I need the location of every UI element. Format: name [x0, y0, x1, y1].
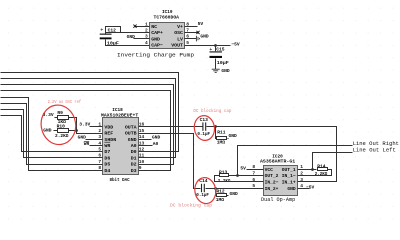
svg-text:5: 5 — [186, 40, 189, 46]
svg-text:GND: GND — [43, 128, 52, 134]
svg-text:V+: V+ — [177, 24, 183, 30]
svg-text:10: 10 — [139, 159, 145, 165]
svg-text:GND: GND — [200, 33, 209, 39]
svg-text:VOUT: VOUT — [171, 43, 183, 49]
wire data bus D1 to DAC pin 11 — [1, 79, 176, 158]
svg-text:1: 1 — [98, 122, 101, 128]
svg-text:NC: NC — [151, 24, 157, 30]
red annotation ellipse around C13 — [193, 114, 217, 142]
wire data bus D5 to DAC pin 7 — [1, 104, 98, 165]
svg-text:8: 8 — [98, 165, 101, 171]
svg-text:GND: GND — [128, 137, 137, 143]
wire IC20 pin 4 GND to -5V — [306, 188, 310, 190]
svg-text:+: + — [209, 47, 212, 53]
svg-text:2: 2 — [145, 28, 148, 34]
svg-text:D1: D1 — [131, 155, 137, 161]
capacitor C14 plates — [202, 184, 205, 192]
junction C13 / R11 — [214, 125, 217, 128]
svg-text:4: 4 — [300, 183, 303, 189]
IC19 right pin names — [171, 24, 183, 49]
capacitor C12 plates — [100, 34, 112, 39]
svg-text:MAX5102BEUE+T: MAX5102BEUE+T — [101, 113, 138, 119]
svg-text:IC19: IC19 — [162, 10, 173, 15]
resistor R11 — [217, 137, 227, 140]
svg-text:DC blocking cap: DC blocking cap — [193, 108, 231, 114]
svg-text:8: 8 — [252, 164, 255, 170]
svg-text:IN_1+: IN_1+ — [282, 180, 296, 186]
svg-text:2.2KΩ: 2.2KΩ — [55, 133, 69, 139]
svg-text:CAP+: CAP+ — [151, 30, 163, 36]
wire R13 left to IC20 pin 6 IN_2- feedback — [215, 176, 251, 182]
wire OUT_2 junction to IC20 pin 7 — [238, 175, 251, 177]
svg-text:R9: R9 — [57, 110, 63, 116]
IC18 left pin numbers 1-8 — [98, 122, 101, 171]
svg-text:A0: A0 — [131, 143, 137, 149]
IC20 right pin numbers 1,2,3,4 — [300, 164, 303, 189]
red annotation ellipse around C14 — [193, 176, 218, 205]
svg-text:VCC: VCC — [265, 167, 274, 173]
IC20 right pin names — [282, 167, 296, 192]
svg-text:R13: R13 — [219, 169, 228, 175]
svg-text:D5: D5 — [104, 162, 110, 168]
svg-text:3.3V: 3.3V — [79, 122, 90, 128]
svg-text:OUTA: OUTA — [125, 124, 137, 130]
IC20 left pin numbers 8,7,6,5 — [252, 164, 255, 189]
svg-text:A0: A0 — [153, 141, 159, 147]
svg-text:5V: 5V — [198, 21, 204, 27]
IC18 left pin names — [104, 124, 116, 173]
svg-text:GND: GND — [230, 191, 239, 197]
wire VOUT junction down to C15 — [215, 46, 217, 52]
resistor R14 — [318, 168, 328, 171]
svg-text:IC18: IC18 — [112, 108, 123, 113]
wire IC19 pin 5 VOUT to -5V — [191, 45, 231, 47]
svg-text:GND: GND — [287, 186, 296, 192]
wire data bus D0 to DAC pin 12 — [1, 73, 179, 152]
svg-text:IN_2−: IN_2− — [265, 180, 279, 186]
wire 3.3V to IC18 pin 1 — [90, 126, 98, 128]
resistor R10 — [58, 129, 69, 133]
junction OUT_2 / R13 / line out right — [236, 174, 239, 177]
svg-text:3: 3 — [145, 34, 148, 40]
svg-text:GND: GND — [152, 135, 161, 141]
wire IC19 pin 7 OSC stub — [191, 32, 199, 34]
svg-text:D7: D7 — [104, 149, 110, 155]
resistor R13 — [220, 174, 229, 177]
wire GND label to IC19 pin 3 — [134, 38, 144, 40]
svg-text:2: 2 — [300, 171, 303, 177]
svg-text:AS358AMTR-G1: AS358AMTR-G1 — [260, 159, 295, 165]
svg-text:3: 3 — [98, 134, 101, 140]
svg-text:GND: GND — [127, 34, 136, 40]
svg-text:CAP−: CAP− — [151, 43, 163, 49]
svg-text:5: 5 — [252, 183, 255, 189]
svg-text:OUT_2: OUT_2 — [265, 173, 279, 179]
resistor R12 — [217, 194, 227, 197]
ground symbol below C15 — [212, 69, 220, 72]
IC19 pin stubs — [144, 27, 191, 46]
svg-text:3: 3 — [300, 177, 303, 183]
wire R13 right to junction — [229, 175, 238, 177]
svg-text:R11: R11 — [217, 129, 226, 135]
svg-text:9: 9 — [139, 165, 142, 171]
svg-text:2.2KΩ: 2.2KΩ — [218, 178, 231, 184]
svg-text:7: 7 — [252, 171, 255, 177]
svg-text:Inverting Charge Pump: Inverting Charge Pump — [117, 52, 194, 58]
wire data bus D3 to DAC pin 9 — [1, 91, 171, 171]
wire OUT_1 up to Line Out Left — [313, 153, 353, 170]
svg-text:Dual Op-Amp: Dual Op-Amp — [261, 197, 295, 203]
svg-text:1: 1 — [300, 164, 303, 170]
wire R10 right to divider node — [69, 130, 77, 132]
IC19 right pin numbers 8,7,6,5 — [186, 21, 189, 46]
wire data bus D2 to DAC pin 10 — [1, 85, 174, 165]
capacitor C15 plates — [210, 52, 223, 58]
svg-text:0.1µF: 0.1µF — [196, 192, 209, 198]
svg-text:DC blocking cap: DC blocking cap — [170, 202, 212, 208]
svg-text:GND: GND — [151, 36, 160, 42]
svg-text:−5V: −5V — [306, 185, 315, 191]
svg-text:WR: WR — [104, 143, 110, 149]
svg-text:D2: D2 — [131, 162, 137, 168]
wire R14 right to IC20 pin 2 IN_1- feedback — [310, 170, 332, 176]
svg-text:0.1µF: 0.1µF — [197, 131, 210, 137]
svg-text:OUTB: OUTB — [125, 131, 137, 137]
svg-text:GND: GND — [229, 133, 238, 139]
wire R11 to GND label — [228, 138, 229, 140]
wire C12 top plate to IC19 pin 2 CAP+ — [106, 27, 144, 35]
svg-text:VDD: VDD — [104, 124, 113, 130]
svg-text:5V: 5V — [240, 166, 246, 172]
wire IC19 pin 6 LV to ground — [191, 38, 197, 40]
no-connect X at IC19 pin 1 — [133, 25, 136, 28]
svg-text:7: 7 — [186, 28, 189, 34]
red annotation ellipse around R9/R10 — [38, 103, 78, 147]
junction divider node R9/R10 — [75, 129, 78, 132]
IC19 left pin numbers 1-4 — [145, 21, 148, 46]
svg-text:4: 4 — [145, 40, 148, 46]
wire IC18 pin 15 OUTB down to C14 — [144, 134, 201, 189]
svg-text:6: 6 — [186, 34, 189, 40]
svg-text:8: 8 — [186, 21, 189, 27]
DAC IC18 body — [103, 118, 139, 175]
wire C12 bottom plate to IC19 pin 4 CAP- — [106, 40, 144, 46]
svg-text:LV: LV — [177, 36, 183, 42]
svg-text:11: 11 — [139, 153, 145, 159]
wire C15 bottom to ground — [215, 59, 217, 70]
svg-text:D6: D6 — [104, 155, 110, 161]
svg-text:R10: R10 — [57, 124, 66, 130]
wire GND to IC18 pin 3 — [86, 139, 98, 141]
wire data bus D7 to DAC pin 5 — [1, 116, 98, 152]
svg-text:6: 6 — [98, 153, 101, 159]
wire data bus D6 to DAC pin 6 — [1, 110, 98, 158]
op-amp/charge-pump IC19 body — [150, 23, 185, 49]
wire segment closing C12 label box — [106, 32, 121, 34]
wire C14 to IC20 pin 5 IN_2+ — [206, 188, 251, 190]
svg-text:5: 5 — [98, 147, 101, 153]
IC19 left pin names — [151, 24, 163, 49]
IC20 left pin names — [265, 167, 279, 192]
overline on IC18 WR pin name — [104, 141, 110, 143]
svg-text:IN_2+: IN_2+ — [265, 186, 279, 192]
svg-text:TC7660DOA: TC7660DOA — [154, 15, 180, 21]
wire 5V to IC20 pin 8 VCC — [247, 169, 251, 171]
wire IC19 pin 8 to 5V — [191, 26, 198, 28]
IC20 pin stubs — [251, 170, 310, 189]
wire R9 right to divider node and IC18 pin 2 REF — [69, 118, 98, 134]
wire IC18 pin 14 to GND label — [144, 139, 152, 141]
svg-text:GND: GND — [78, 134, 87, 140]
overline on WR net label — [84, 141, 89, 143]
wire R12 to GND label — [227, 195, 229, 197]
IC18 pin stubs — [98, 127, 144, 171]
wire junction down to R11 — [216, 127, 217, 139]
svg-text:1: 1 — [145, 21, 148, 27]
svg-text:2.2V as DAC ref: 2.2V as DAC ref — [48, 100, 82, 105]
svg-text:C15: C15 — [216, 47, 225, 53]
wire C13 to IC20 pin 3 IN_1+ — [207, 127, 337, 182]
svg-text:D3: D3 — [131, 168, 137, 174]
wire OUT_2 up to Line Out Right — [238, 146, 353, 176]
svg-text:−5V: −5V — [231, 42, 240, 48]
svg-text:D4: D4 — [104, 168, 110, 174]
junction OUT_1 / R14 / line out left — [311, 168, 314, 171]
wire IC18 pin 16 OUTA to C13 — [144, 126, 203, 128]
svg-text:Line Out Left: Line Out Left — [353, 147, 396, 153]
svg-text:D0: D0 — [131, 149, 137, 155]
svg-text:1MΩ: 1MΩ — [216, 197, 225, 203]
junction VOUT / C15 — [214, 44, 217, 47]
capacitor C13 plates — [203, 122, 206, 130]
svg-text:IN_1−: IN_1− — [282, 173, 296, 179]
svg-text:R12: R12 — [216, 188, 225, 194]
svg-text:C13: C13 — [200, 117, 209, 123]
svg-text:8bit DAC: 8bit DAC — [110, 177, 130, 183]
wire 3.3V to R9 — [55, 117, 58, 119]
svg-text:+: + — [100, 28, 103, 34]
svg-text:6: 6 — [252, 177, 255, 183]
no-connect X at IC19 pin 7 — [196, 31, 199, 34]
wire junction down to R12 — [216, 189, 217, 196]
svg-text:10µF: 10µF — [217, 60, 229, 66]
svg-text:REF: REF — [104, 131, 113, 137]
svg-text:4: 4 — [98, 140, 101, 146]
wire IC18 pin 13 to A0 label — [144, 145, 153, 147]
svg-text:R14: R14 — [317, 163, 326, 169]
wire IC19 pin 1 NC stub — [136, 26, 144, 28]
svg-text:1MΩ: 1MΩ — [217, 140, 226, 146]
svg-text:Line Out Right: Line Out Right — [353, 141, 399, 147]
svg-text:12: 12 — [139, 147, 145, 153]
resistor R9 — [58, 116, 69, 120]
svg-text:OUT_1: OUT_1 — [282, 167, 296, 173]
wire GND to R10 — [54, 130, 58, 132]
op-amp IC20 body — [264, 166, 298, 196]
wire IC20 pin 1 OUT_1 to R14 — [310, 169, 317, 171]
ground symbol at IC19 pin 6 — [196, 36, 199, 42]
junction C14 / R12 — [214, 187, 217, 190]
svg-text:OSC: OSC — [174, 30, 183, 36]
IC18 right pin names — [125, 124, 137, 173]
wire WR label to IC18 pin 4 — [90, 145, 98, 147]
svg-text:2: 2 — [98, 128, 101, 134]
svg-text:GND: GND — [221, 68, 230, 74]
svg-text:7: 7 — [98, 159, 101, 165]
IC18 right pin numbers 16-9 — [139, 122, 145, 171]
wire data bus D4 to DAC pin 8 — [1, 98, 98, 171]
